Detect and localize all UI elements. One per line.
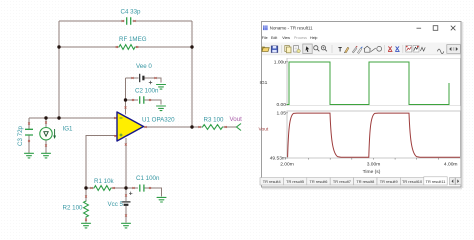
- wire C3 stems: [28, 118, 30, 153]
- toolbar background: [262, 43, 461, 55]
- toolbar separator4: [402, 45, 404, 53]
- voltage source Vcc (battery): [122, 192, 133, 217]
- wire op-amp output row y=127: [144, 126, 237, 128]
- svg-text:4.00m: 4.00m: [444, 162, 458, 168]
- svg-text:TR result5: TR result5: [286, 179, 304, 184]
- title bar icon: [263, 26, 268, 31]
- ground below R2: [82, 223, 91, 228]
- close button: [451, 26, 456, 31]
- svg-text:1.05: 1.05: [276, 111, 286, 117]
- svg-text:Vout: Vout: [259, 126, 269, 132]
- svg-text:IG1: IG1: [260, 80, 268, 86]
- svg-text:Process: Process: [294, 36, 307, 40]
- capacitor C4 33p: [122, 17, 136, 25]
- svg-text:Help: Help: [310, 36, 317, 40]
- resistor R1 10k: [91, 186, 115, 191]
- toolbar export page: [294, 46, 299, 52]
- toolbar pen2: [352, 48, 357, 53]
- toolbar line tool: [371, 48, 376, 52]
- toolbar wave tool: [420, 47, 425, 51]
- svg-text:TR result8: TR result8: [356, 179, 374, 184]
- wire R2 stems: [85, 188, 87, 223]
- toolbar chart tool1: [406, 46, 412, 52]
- svg-text:TR result4: TR result4: [263, 179, 282, 184]
- wire right feedback vertical x=192: [191, 21, 193, 127]
- svg-text:1.00u: 1.00u: [274, 60, 287, 66]
- svg-text:0.00: 0.00: [276, 102, 286, 108]
- toolbar separator: [281, 45, 283, 53]
- wire R1 row y=188: [86, 188, 162, 197]
- x axis labels: [280, 162, 457, 175]
- toolbar blue marker tool: [395, 46, 399, 51]
- svg-text:T: T: [338, 47, 342, 53]
- tab scroll buttons: [450, 178, 462, 185]
- svg-text:Edit: Edit: [271, 36, 277, 40]
- toolbar separator2: [331, 45, 333, 53]
- capacitor C1 100n: [133, 185, 152, 192]
- wire op-amp top supply vertical: [125, 78, 127, 115]
- wire op-amp bottom supply vertical: [125, 138, 127, 188]
- svg-text:TR result10: TR result10: [402, 179, 423, 184]
- junction dot node inv-input (59,118): [57, 116, 60, 119]
- svg-text:File: File: [262, 36, 268, 40]
- svg-text:TR result9: TR result9: [380, 179, 398, 184]
- IG1 green square wave trace: [287, 62, 449, 105]
- junction dot node RF-right (192,47): [190, 45, 193, 48]
- ground of Vee: [157, 85, 166, 90]
- resistor R2 100: [84, 196, 89, 221]
- wire Vcc stems: [125, 188, 127, 223]
- toolbar chart tool2: [413, 46, 419, 52]
- junction dot node R1-left (86,188): [84, 186, 87, 189]
- resistor R3 100: [199, 125, 227, 130]
- IG1 plot y ticks: [286, 62, 289, 105]
- wire RF row y=46.5: [59, 46, 192, 48]
- wire Vee row y=78: [126, 78, 162, 83]
- capacitor C3 72p: [25, 123, 33, 143]
- ground of C2: [157, 106, 166, 111]
- output pin Vout: [237, 124, 242, 131]
- Vout red trace: [288, 113, 460, 157]
- toolbar ellipse tool: [377, 46, 382, 51]
- wire left feedback vertical x=59: [58, 21, 60, 118]
- minimize button: [417, 27, 422, 29]
- wire inverting input row y=118: [29, 117, 117, 119]
- toolbar save floppy: [271, 46, 277, 52]
- maximize button: [433, 26, 438, 31]
- Vout plot frame: [287, 111, 460, 158]
- toolbar interp tool: [437, 49, 443, 54]
- ground below IG1: [42, 153, 51, 158]
- Vout plot y ticks: [286, 113, 289, 158]
- junction dot node output (192,127): [190, 125, 193, 128]
- resistor RF 1MEG: [116, 45, 138, 50]
- ground of C1: [157, 197, 166, 202]
- svg-text:Noname - TR result11: Noname - TR result11: [270, 26, 313, 31]
- wire IG1 stems: [45, 118, 47, 153]
- toolbar cursor button (pressed): [303, 44, 312, 54]
- toolbar open folder: [262, 47, 269, 52]
- junction dot node RF-left (59,47): [57, 45, 60, 48]
- voltage source Vee (battery): [132, 74, 157, 84]
- toolbar pen3: [357, 48, 362, 54]
- ground below C3: [25, 153, 34, 158]
- toolbar pen1: [345, 47, 349, 53]
- TR result window frame: [262, 22, 464, 190]
- toolbar copy page: [285, 46, 290, 52]
- wire top feedback row y=21: [59, 20, 192, 22]
- x axis ticks: [309, 158, 439, 160]
- toolbar separator3: [384, 45, 386, 53]
- wire non-inverting input L-shape: [86, 136, 117, 189]
- menu bar: [262, 36, 318, 40]
- junction dot node C2 (125.5,100): [124, 98, 127, 101]
- svg-text:Time (s): Time (s): [363, 169, 381, 175]
- tab bar: [260, 177, 447, 185]
- toolbar spinner buttons: [447, 45, 461, 54]
- svg-text:49.53m: 49.53m: [270, 156, 286, 162]
- ground below Vcc: [122, 223, 131, 228]
- svg-text:3.00m: 3.00m: [367, 162, 381, 168]
- toolbar home: [364, 46, 371, 52]
- toolbar zoom: [314, 46, 318, 50]
- toolbar red marker tool: [388, 46, 392, 51]
- svg-text:2.00m: 2.00m: [280, 162, 294, 168]
- toolbar zoom2: [321, 46, 325, 50]
- current source IG1: [40, 122, 56, 147]
- junction dot node IG1-top (46,118): [44, 116, 47, 119]
- junction dot node R1-right (126,188): [124, 186, 127, 189]
- svg-text:View: View: [282, 36, 290, 40]
- svg-text:TR result11: TR result11: [426, 179, 446, 184]
- IG1 plot frame: [287, 58, 460, 105]
- svg-text:TR result6: TR result6: [310, 179, 328, 184]
- wire C2 row y=100: [126, 100, 162, 105]
- svg-text:TR result7: TR result7: [333, 179, 351, 184]
- op-amp U1 OPA320: [114, 107, 146, 146]
- capacitor C2 100n: [132, 96, 151, 103]
